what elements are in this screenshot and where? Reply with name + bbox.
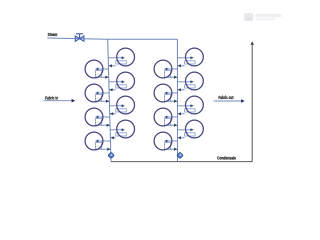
svg-text:Fabric out: Fabric out xyxy=(218,94,234,100)
svg-text:Condensate: Condensate xyxy=(217,155,236,161)
svg-text:Steam: Steam xyxy=(48,32,58,38)
svg-text:Fabric in: Fabric in xyxy=(45,95,58,101)
